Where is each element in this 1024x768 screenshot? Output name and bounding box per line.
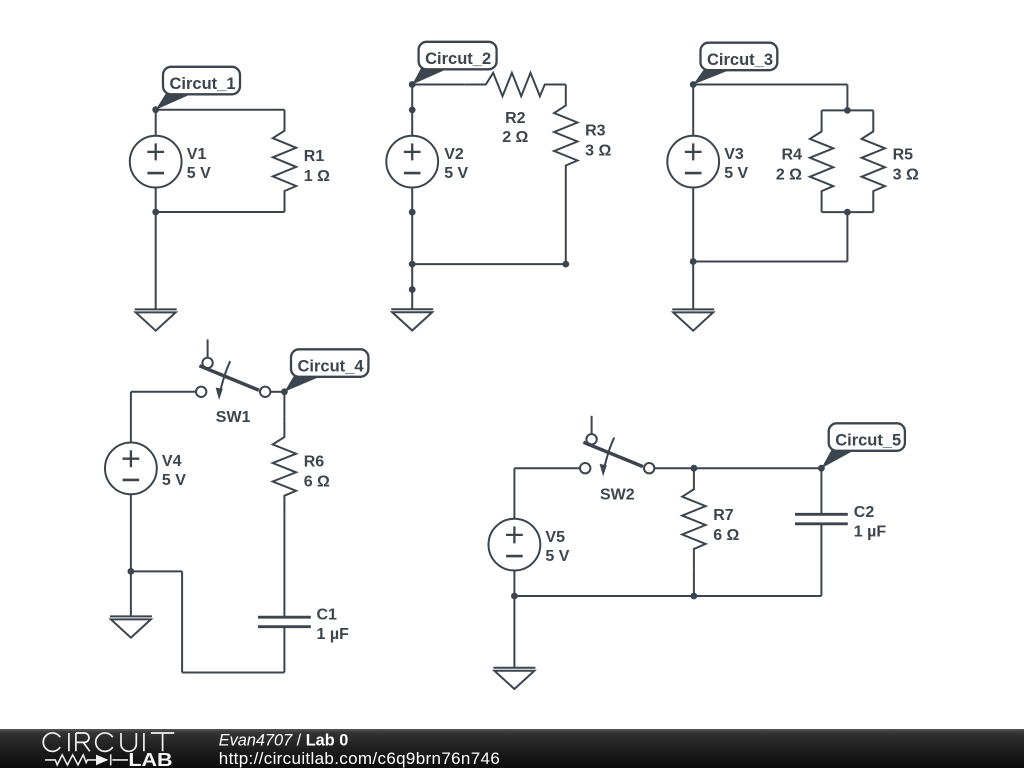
svg-text:5 V: 5 V [724, 165, 748, 182]
svg-text:http://circuitlab.com/c6q9brn7: http://circuitlab.com/c6q9brn76n746 [219, 749, 500, 768]
wire [283, 517, 285, 618]
label R4 2 Ohm [776, 147, 802, 184]
svg-text:6 Ω: 6 Ω [304, 473, 330, 490]
node [818, 465, 825, 472]
wire [155, 110, 157, 136]
node [152, 209, 159, 216]
svg-text:2 Ω: 2 Ω [776, 167, 802, 184]
wire [283, 392, 285, 416]
ground [391, 309, 433, 330]
svg-text:V3: V3 [724, 146, 744, 163]
label V4 5 V [162, 453, 186, 489]
logo resistor-diode squiggle [45, 754, 128, 765]
wire [693, 261, 847, 263]
svg-text:V5: V5 [545, 529, 565, 546]
svg-text:R1: R1 [304, 148, 325, 165]
wire [182, 672, 284, 674]
capacitor C2 [795, 514, 848, 524]
label R3 3 Ohm [585, 123, 611, 160]
ground [135, 309, 177, 330]
wire [514, 467, 580, 469]
voltage source V1 [130, 136, 182, 188]
wire [692, 188, 694, 262]
wire [131, 391, 196, 393]
node [844, 107, 851, 114]
svg-text:SW1: SW1 [216, 409, 251, 426]
resistor R1 [273, 110, 296, 212]
voltage source V2 [386, 136, 438, 188]
wire [181, 571, 183, 672]
wire [155, 188, 157, 213]
wire [156, 109, 285, 111]
resistor R2 [465, 73, 566, 96]
voltage source V3 [667, 136, 719, 188]
label R6 6 Ohm [304, 453, 330, 490]
wire [411, 188, 413, 290]
node [409, 286, 416, 293]
wire [820, 468, 822, 514]
svg-text:Evan4707 / Lab 0: Evan4707 / Lab 0 [219, 731, 348, 749]
node [409, 81, 416, 88]
svg-text:R5: R5 [893, 147, 914, 164]
wire [692, 262, 694, 310]
wire [513, 571, 515, 597]
svg-text:Circut_3: Circut_3 [707, 51, 773, 69]
wire [693, 84, 847, 86]
node label Circut_5 [821, 423, 905, 468]
voltage source V5 [489, 519, 541, 571]
wire [131, 570, 182, 572]
node label Circut_4 [284, 349, 368, 392]
label V2 5 V [444, 146, 468, 182]
svg-text:3 Ω: 3 Ω [585, 143, 611, 160]
wire [283, 627, 285, 673]
node [127, 568, 134, 575]
svg-text:5 V: 5 V [187, 165, 211, 182]
wire [822, 211, 874, 213]
wire [846, 212, 848, 261]
svg-text:V4: V4 [162, 453, 182, 470]
wire [846, 85, 848, 111]
node [690, 258, 697, 265]
resistor R5 [862, 110, 885, 212]
resistor R7 [682, 468, 705, 570]
voltage source V4 [105, 443, 157, 495]
svg-text:R4: R4 [782, 147, 803, 164]
wire [693, 570, 695, 596]
label C2 1 uF [854, 504, 887, 540]
wire [130, 494, 132, 571]
svg-text:LAB: LAB [128, 750, 172, 768]
node label Circut_2 [412, 42, 496, 85]
footer bar [0, 729, 1024, 768]
svg-text:Circut_5: Circut_5 [835, 432, 901, 450]
resistor R3 [554, 85, 577, 187]
svg-text:Circut_2: Circut_2 [425, 50, 491, 68]
svg-text:R6: R6 [304, 453, 325, 470]
node [691, 593, 698, 600]
node [152, 106, 159, 113]
svg-text:3 Ω: 3 Ω [893, 167, 919, 184]
node [690, 81, 697, 88]
wire [820, 524, 822, 596]
svg-text:C2: C2 [854, 504, 875, 521]
node [409, 209, 416, 216]
svg-text:5 V: 5 V [162, 472, 186, 489]
svg-text:C1: C1 [317, 607, 338, 624]
node [691, 465, 698, 472]
switch SW2 [580, 416, 654, 477]
label V1 5 V [187, 146, 211, 182]
ground [110, 616, 152, 637]
wire [411, 290, 413, 310]
wire [654, 467, 821, 469]
label R7 6 Ohm [713, 507, 739, 544]
svg-text:Circut_1: Circut_1 [170, 75, 236, 93]
node [844, 209, 851, 216]
capacitor C1 [258, 617, 311, 627]
svg-text:6 Ω: 6 Ω [713, 527, 739, 544]
wire [411, 85, 413, 136]
node [511, 593, 518, 600]
wire [692, 85, 694, 136]
wire [155, 212, 157, 309]
resistor R6 [273, 416, 296, 517]
wire [130, 392, 132, 443]
node [562, 261, 569, 268]
node [409, 107, 416, 114]
label R5 3 Ohm [893, 147, 919, 184]
svg-text:V1: V1 [187, 146, 207, 163]
svg-text:R3: R3 [585, 123, 606, 140]
wire [513, 596, 515, 668]
label V5 5 V [545, 529, 569, 565]
wire [156, 211, 285, 213]
wire [513, 468, 515, 519]
wire [822, 109, 874, 111]
wire [514, 595, 821, 597]
ground [672, 309, 714, 330]
label C1 1 uF [317, 607, 350, 643]
label R1 1 Ohm [304, 148, 330, 185]
svg-text:1 µF: 1 µF [317, 626, 350, 643]
svg-text:5 V: 5 V [545, 548, 569, 565]
logo CIRCUIT [43, 733, 174, 751]
node [409, 261, 416, 268]
svg-text:R7: R7 [713, 507, 734, 524]
wire [130, 571, 132, 616]
node label Circut_1 [156, 67, 240, 110]
switch SW1 [196, 339, 270, 400]
svg-text:V2: V2 [444, 146, 464, 163]
ground [493, 668, 535, 689]
svg-text:1 Ω: 1 Ω [304, 168, 330, 185]
svg-text:R2: R2 [505, 110, 526, 127]
resistor R4 [810, 110, 833, 212]
node [281, 388, 288, 395]
wire [270, 391, 284, 393]
wire [565, 187, 567, 265]
svg-text:2 Ω: 2 Ω [502, 129, 528, 146]
svg-text:5 V: 5 V [444, 165, 468, 182]
label R2 2 Ohm [502, 110, 528, 146]
svg-text:SW2: SW2 [600, 487, 635, 504]
label V3 5 V [724, 146, 748, 182]
node label Circut_3 [693, 43, 777, 85]
wire [412, 263, 566, 265]
svg-text:Circut_4: Circut_4 [298, 358, 365, 376]
wire [412, 84, 465, 86]
svg-text:1 µF: 1 µF [854, 523, 887, 540]
